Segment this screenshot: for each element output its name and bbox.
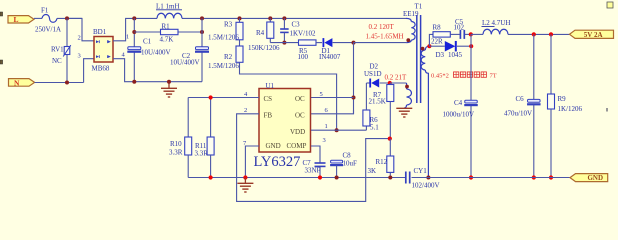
wire <box>311 110 354 114</box>
svg-text:1K/1206: 1K/1206 <box>558 105 583 113</box>
transformer T1 auxiliary winding <box>390 83 412 108</box>
svg-text:C3: C3 <box>292 20 301 28</box>
node CS-R11 <box>209 95 213 99</box>
svg-text:250V/1A: 250V/1A <box>35 25 61 33</box>
capacitor C5 102 <box>454 18 471 39</box>
svg-text:R10: R10 <box>170 140 182 148</box>
node C4 bottom <box>469 175 473 179</box>
svg-text:0.2 21T: 0.2 21T <box>385 74 408 82</box>
inductor L1 1mH <box>156 3 182 19</box>
node C1 top <box>132 16 136 20</box>
svg-text:GND: GND <box>587 174 603 182</box>
svg-text:RV1: RV1 <box>51 45 64 53</box>
transformer T1 primary winding <box>406 18 415 42</box>
resistor R7 21.5K <box>369 83 394 139</box>
svg-text:3.3R: 3.3R <box>169 149 183 157</box>
BD1 pin numbers <box>78 34 130 60</box>
svg-text:0.45*2: 0.45*2 <box>431 72 449 79</box>
svg-text:D3: D3 <box>436 51 445 59</box>
svg-text:22R: 22R <box>431 37 443 45</box>
wire <box>311 146 320 163</box>
resistor R4 150K/1206 <box>248 18 280 51</box>
node secondary return <box>426 176 430 180</box>
primary winding label <box>366 23 404 40</box>
node R1 right <box>200 30 204 34</box>
wire drain line <box>353 43 355 114</box>
aux winding label <box>385 74 408 82</box>
wire primary ground rail <box>188 177 406 179</box>
capacitor C2 10U/400V <box>170 18 209 81</box>
node C7 bottom <box>318 175 322 179</box>
node R12 bottom <box>388 176 392 180</box>
node secondary polarity dot <box>421 47 425 51</box>
node C6 bottom <box>532 175 536 179</box>
resistor R9 1K/1206 <box>548 34 583 177</box>
svg-text:5V 2A: 5V 2A <box>584 31 603 39</box>
wire <box>270 42 298 44</box>
svg-text:C1: C1 <box>143 37 152 45</box>
diode D1 IN4007 <box>319 38 354 61</box>
svg-text:MB68: MB68 <box>92 65 110 73</box>
svg-text:N: N <box>14 78 20 87</box>
node IC ground <box>243 175 247 179</box>
wire output node <box>470 34 472 177</box>
inductor L2 4.7UH <box>471 19 570 34</box>
wire FB feedback route <box>237 114 390 202</box>
node N-RV1 junction <box>65 81 69 85</box>
wire <box>113 59 202 82</box>
svg-text:3: 3 <box>78 53 81 60</box>
node aux-R7 junction <box>388 81 392 85</box>
svg-text:IN4007: IN4007 <box>319 53 341 61</box>
varistor RV1 NC <box>51 18 71 82</box>
fuse F1 250V/1A <box>35 7 61 34</box>
svg-text:CS: CS <box>264 95 273 103</box>
svg-text:R12: R12 <box>376 158 388 166</box>
capacitor C1 10U/400V <box>127 18 170 81</box>
node rail-C3 <box>282 16 286 20</box>
svg-text:U1: U1 <box>266 82 275 90</box>
svg-text:1.45-1.65MH: 1.45-1.65MH <box>366 32 404 40</box>
svg-text:100: 100 <box>298 53 309 61</box>
svg-text:LY6327: LY6327 <box>254 154 301 170</box>
wire <box>57 18 94 40</box>
U1 value label <box>254 154 301 170</box>
wire <box>35 59 94 83</box>
svg-text:10U/400V: 10U/400V <box>170 58 200 66</box>
svg-text:OC: OC <box>295 112 305 120</box>
node 5V-C6 <box>532 32 536 36</box>
svg-text:5.1: 5.1 <box>370 124 379 132</box>
terminal N (AC neutral input) <box>9 78 35 87</box>
ground (bulk negative) <box>161 80 177 97</box>
svg-text:4.7K: 4.7K <box>160 35 174 43</box>
svg-text:3K: 3K <box>368 167 377 175</box>
svg-text:470u/10V: 470u/10V <box>504 109 532 117</box>
svg-text:5: 5 <box>320 91 323 98</box>
scan artifact marks <box>0 2 613 112</box>
resistor R6 5.1 <box>363 83 379 132</box>
svg-text:21.5K: 21.5K <box>369 98 386 106</box>
svg-text:1000u/10V: 1000u/10V <box>443 110 475 118</box>
svg-text:VDD: VDD <box>290 128 305 136</box>
svg-text:102/400V: 102/400V <box>412 182 440 190</box>
svg-text:R1: R1 <box>162 22 171 30</box>
svg-text:C8: C8 <box>343 152 352 160</box>
node VDD junction <box>335 128 339 132</box>
transformer T1 core <box>417 15 421 103</box>
wire <box>113 18 157 40</box>
svg-text:R2: R2 <box>224 53 233 61</box>
svg-text:BD1: BD1 <box>93 28 107 36</box>
svg-text:NC: NC <box>52 57 62 65</box>
node output-D3 <box>469 44 473 48</box>
resistor R12 3K <box>368 139 394 178</box>
resistor R10 3.3R <box>169 137 192 178</box>
resistor R3 1.5M/1206 <box>208 18 243 41</box>
svg-text:1: 1 <box>325 123 328 130</box>
svg-text:FB: FB <box>264 112 273 120</box>
svg-text:R3: R3 <box>224 20 233 28</box>
terminal GND output <box>570 174 608 183</box>
node R11 bottom <box>209 175 213 179</box>
svg-text:33NF: 33NF <box>305 167 321 175</box>
node snubber-C3 bottom <box>282 41 286 45</box>
wire <box>240 62 337 130</box>
IC U1 LY6327 PWM controller <box>259 82 311 152</box>
svg-text:10uF: 10uF <box>343 159 358 167</box>
resistor R8 22R <box>431 23 460 45</box>
resistor R5 100 <box>298 40 323 61</box>
capacitor CY1 102/400V (Y-cap) <box>406 167 440 189</box>
wire secondary ground rail <box>412 177 571 179</box>
resistor R11 3.3R <box>195 137 215 178</box>
wire <box>429 45 471 47</box>
svg-text:CY1: CY1 <box>414 167 428 175</box>
svg-text:L: L <box>14 15 19 24</box>
node C8 bottom <box>335 176 339 180</box>
wire <box>245 146 259 178</box>
node secondary-D3 <box>427 44 431 48</box>
bridge rectifier BD1 MB68 <box>92 28 114 72</box>
transformer T1 secondary winding <box>421 46 429 177</box>
svg-text:OC: OC <box>295 95 305 103</box>
svg-text:R8: R8 <box>433 23 442 31</box>
capacitor C6 470u/10V <box>504 34 541 177</box>
svg-text:R9: R9 <box>558 95 567 103</box>
svg-text:COMP: COMP <box>287 142 307 150</box>
terminal L (AC line input) <box>8 15 34 24</box>
svg-text:US1D: US1D <box>364 70 382 78</box>
svg-text:1KV/102: 1KV/102 <box>290 29 317 37</box>
svg-text:102: 102 <box>454 24 465 32</box>
U1 pin numbers <box>243 91 329 147</box>
wire <box>429 34 433 46</box>
svg-text:2: 2 <box>78 35 81 42</box>
svg-text:150K/1206: 150K/1206 <box>248 44 280 52</box>
diode D2 US1D <box>364 63 407 88</box>
svg-text:3: 3 <box>323 137 326 144</box>
capacitor C7 33NF <box>303 159 326 178</box>
wire <box>354 42 407 44</box>
svg-text:1045: 1045 <box>448 51 463 59</box>
capacitor C4 1000u/10V <box>443 99 478 119</box>
svg-text:0.2 120T: 0.2 120T <box>369 23 395 31</box>
svg-text:1.5M/1206: 1.5M/1206 <box>208 33 239 41</box>
resistor R2 1.5M/1206 <box>208 40 243 70</box>
node OC pin5 junction <box>352 96 356 100</box>
node L-RV1 junction <box>65 16 69 20</box>
svg-text:2: 2 <box>244 107 247 114</box>
capacitor C8 10uF (VDD) <box>330 152 357 178</box>
svg-text:C4: C4 <box>454 99 463 107</box>
wire VDD row <box>311 129 366 131</box>
ground (IC) <box>237 178 253 193</box>
svg-text:3.3R: 3.3R <box>195 150 209 158</box>
node R1 left riser <box>132 30 136 34</box>
capacitor C3 1KV/102 <box>280 18 316 42</box>
node rail-R4 <box>268 16 272 20</box>
secondary winding label <box>431 72 497 80</box>
wire <box>311 97 354 99</box>
svg-text:R4: R4 <box>256 29 265 37</box>
node 5V-R9 <box>549 32 553 36</box>
wire top rail <box>182 17 406 19</box>
node R9 bottom <box>549 175 553 179</box>
wire CS sense row <box>188 98 259 138</box>
svg-text:GND: GND <box>266 142 281 150</box>
transformer T1 designator <box>403 3 423 18</box>
wire <box>34 17 42 19</box>
svg-text:C6: C6 <box>516 95 525 103</box>
svg-text:1: 1 <box>126 34 129 41</box>
node output-C5 <box>469 32 473 36</box>
node FB divider <box>388 137 392 141</box>
node rail-R3 <box>238 16 242 20</box>
node primary polarity dot <box>406 38 410 42</box>
diode D3 1045 <box>436 41 463 59</box>
svg-text:7T: 7T <box>490 72 497 79</box>
node rail-C2 <box>200 16 204 20</box>
svg-text:1.5M/1206: 1.5M/1206 <box>208 62 239 70</box>
resistor R1 4.7K <box>134 22 202 43</box>
node C1 bottom <box>132 80 136 84</box>
node drain-clamp junction <box>352 41 356 45</box>
svg-text:L2 4.7UH: L2 4.7UH <box>482 19 510 27</box>
terminal 5V 2A output <box>570 30 614 39</box>
ground (aux winding) <box>396 108 412 117</box>
node aux polarity dot <box>405 85 409 89</box>
svg-text:10U/400V: 10U/400V <box>141 48 171 56</box>
svg-text:F1: F1 <box>41 7 49 15</box>
